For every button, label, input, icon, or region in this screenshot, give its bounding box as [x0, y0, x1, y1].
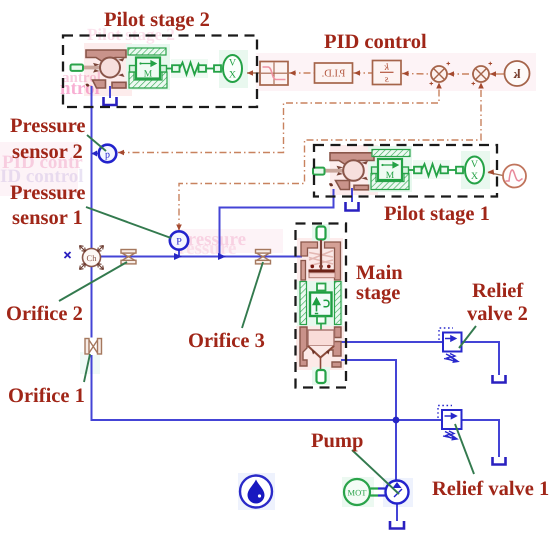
- box main stage: [296, 224, 347, 388]
- sensor VX pilot stage 1: [465, 157, 484, 184]
- box pilot stage 2: [63, 36, 257, 108]
- pointer relief valve 1: [455, 424, 474, 474]
- svg-text:Pump: Pump: [311, 430, 363, 452]
- arrow at sensor2 output: [118, 150, 124, 156]
- mass body: [136, 58, 160, 79]
- wire source to VX pilot1: [488, 173, 503, 176]
- svg-text:sensor 1: sensor 1: [12, 207, 83, 229]
- k/s integrator block: [373, 61, 402, 86]
- arrow into ks box: [403, 71, 409, 77]
- signal dash-dot lines: [118, 62, 504, 231]
- pointer orifice 1: [84, 354, 90, 382]
- svg-text:V: V: [471, 159, 479, 170]
- svg-text:Orifice 3: Orifice 3: [188, 330, 265, 352]
- svg-text:Pilot stage 1: Pilot stage 1: [384, 203, 490, 225]
- svg-text:Pilot stage 2: Pilot stage 2: [104, 9, 210, 31]
- svg-text:Pressure: Pressure: [10, 115, 86, 137]
- arrow into PID: [354, 70, 360, 76]
- spring pilot stage 1: [409, 164, 464, 176]
- connector left: [130, 66, 137, 73]
- valve body lower-left: [93, 80, 106, 88]
- svg-text:Relief: Relief: [472, 280, 524, 302]
- relief valve 1 symbol: [438, 406, 462, 440]
- poppet body: [300, 327, 307, 366]
- wire pilot2 valve to vertical supply: [91, 86, 93, 249]
- signal source pilot1: [503, 165, 526, 188]
- arrow into sat: [290, 70, 296, 76]
- wire K to sum2: [490, 73, 505, 75]
- spool mass block: [317, 284, 326, 291]
- valve drain mark d: [86, 84, 90, 87]
- shaft: [371, 489, 379, 496]
- wires-blue: [65, 86, 506, 529]
- sensor VX pilot stage 2: [223, 55, 242, 82]
- wire pump to tank: [396, 504, 398, 521]
- node arrow sensor1 on line: [174, 253, 182, 260]
- valve body upper: [86, 50, 126, 63]
- chamber spring: [309, 251, 333, 266]
- tank relief1: [493, 457, 506, 465]
- svg-text:Relief valve 1: Relief valve 1: [432, 478, 549, 500]
- wire main horizontal line: [82, 256, 302, 258]
- spool section hatches: [300, 282, 307, 325]
- svg-text:P.I.D.: P.I.D.: [322, 69, 346, 80]
- summing junction 2: [473, 66, 489, 82]
- plus marks near junctions: [430, 62, 493, 86]
- arrow into sum1 from sum2: [448, 71, 454, 77]
- pointer relief valve 2: [459, 326, 476, 348]
- port mark x: [65, 252, 71, 258]
- node arrow pilot1 drop on line: [218, 253, 226, 260]
- port main bottom: [317, 370, 326, 383]
- servo valve pilot stage 2: [71, 50, 127, 88]
- svg-text:V: V: [229, 58, 237, 69]
- svg-text:X: X: [471, 171, 479, 182]
- wire sat to pid: [289, 72, 314, 74]
- chamber Ch: [80, 246, 104, 270]
- wire sum2 to sum1: [448, 73, 473, 75]
- pointer orifice 3: [242, 262, 263, 328]
- svg-text:P: P: [176, 237, 182, 248]
- node arrow sensor2 stub: [92, 153, 99, 155]
- pointer pump: [352, 450, 399, 494]
- orifice 1 symbol: [84, 338, 104, 356]
- svg-text:M: M: [144, 70, 153, 80]
- fluid properties icon: [240, 476, 272, 508]
- svg-text:X: X: [229, 70, 237, 81]
- svg-text:Ch: Ch: [87, 253, 98, 263]
- wire pilot1 drain to main line: [220, 189, 334, 257]
- tank pilot1: [346, 202, 359, 211]
- pressure sensor 2: [99, 145, 117, 163]
- spring chamber shell: [308, 248, 335, 280]
- port main top: [317, 227, 326, 240]
- ground hatch top: [128, 48, 166, 55]
- arrow into VX1: [488, 169, 495, 175]
- pointer orifice 2: [59, 262, 127, 301]
- connector right: [160, 66, 167, 73]
- spring pilot stage 2: [167, 63, 222, 75]
- svg-text:M: M: [386, 171, 395, 181]
- box pilot stage 1: [314, 145, 497, 197]
- tank relief2: [493, 375, 506, 383]
- tank pump: [390, 521, 404, 529]
- svg-text:Main: Main: [356, 262, 403, 284]
- motor MOT: [344, 479, 386, 505]
- arrow into sum2 from K: [490, 71, 496, 77]
- dashed boxes: [63, 36, 497, 388]
- arrow up into sum1 bottom: [436, 83, 442, 89]
- svg-text:Orifice 1: Orifice 1: [8, 385, 85, 407]
- svg-text:PID control: PID control: [324, 31, 427, 53]
- pointer pressure sensor 2: [87, 135, 106, 151]
- pump: [386, 481, 409, 504]
- saturation block: [260, 62, 288, 86]
- wire sensor1 feedback to sum2: [179, 84, 481, 230]
- main stage assembly: [300, 227, 341, 384]
- arrowheads: [118, 62, 496, 231]
- wire sensor2 feedback to sum1: [118, 84, 439, 153]
- ground hatch base: [129, 72, 167, 88]
- gain K circle: [505, 61, 530, 86]
- wire pid to ks: [354, 72, 373, 74]
- relief valve 2 symbol: [439, 328, 462, 362]
- arrow at sensor1 top: [176, 225, 182, 231]
- wire main stage to relief valve 2 and tank: [341, 342, 499, 375]
- pointer pressure sensor 1: [86, 207, 171, 238]
- summing junction 1: [431, 66, 447, 82]
- junction node dot: [393, 417, 400, 424]
- servo valve pilot stage 1: [313, 153, 374, 190]
- mass M pilot stage 1: [371, 150, 410, 190]
- svg-text:valve 2: valve 2: [467, 303, 528, 325]
- tank pilot2: [104, 97, 117, 105]
- wire Ch down to orifice1 and bottom corner: [92, 266, 394, 420]
- arrow into VX2: [247, 70, 253, 76]
- valve body lower bar: [112, 82, 126, 88]
- svg-text:Orifice 2: Orifice 2: [6, 303, 83, 325]
- wire relief valve 1 line: [396, 420, 499, 457]
- pressure sensor 1: [170, 231, 188, 249]
- flapper disc: [83, 66, 101, 70]
- wire pilot1 tank stub: [351, 188, 353, 202]
- wire sat output to VX pilot2: [247, 72, 260, 74]
- svg-text:k: k: [513, 66, 521, 81]
- arrow up into sum2 bottom: [478, 83, 484, 89]
- svg-text:Pressure: Pressure: [10, 182, 86, 204]
- wire main stage lower outlet to pump column: [341, 360, 396, 420]
- svg-text:sensor 2: sensor 2: [12, 141, 83, 163]
- svg-text:k: k: [384, 62, 389, 73]
- port pilot1 mech: [313, 168, 325, 175]
- PID block: [315, 63, 353, 83]
- wire pump column: [395, 420, 397, 481]
- svg-text:MOT: MOT: [348, 488, 368, 498]
- wire sensor1 tap: [178, 250, 180, 257]
- poppet chamber: [308, 330, 334, 346]
- orifice 2 symbol: [121, 250, 136, 264]
- valve arrows: [93, 58, 125, 77]
- wire sum1 to ks: [402, 73, 431, 76]
- wire pilot2 tank stub: [109, 86, 111, 98]
- port pilot2 mech: [71, 65, 84, 71]
- mass M pilot stage 2: [128, 48, 167, 88]
- svg-text:s: s: [385, 74, 389, 85]
- orifice 3 symbol: [256, 250, 271, 264]
- svg-text:stage: stage: [356, 282, 400, 304]
